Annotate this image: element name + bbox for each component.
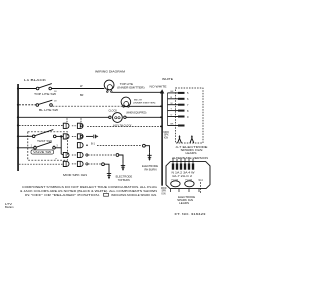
svg-text:BM LITE: BM LITE [134, 100, 143, 102]
svg-text:MOD: MOD [164, 132, 170, 134]
svg-text:(INNER EMITTER): (INNER EMITTER) [117, 85, 144, 89]
svg-text:ALTERNATE VERSION: ALTERNATE VERSION [172, 156, 208, 160]
junction dot row2 [17, 104, 19, 106]
wire dashed T1b feed drop [80, 118, 82, 123]
igniter T4b [77, 152, 88, 157]
svg-text:L1 BLACK: L1 BLACK [24, 78, 47, 82]
wire dashed T1a feed drop [66, 118, 68, 123]
svg-text:FO 7A: FO 7A [172, 178, 179, 181]
svg-text:MOD: MOD [161, 188, 167, 190]
pin row 5 [168, 116, 179, 118]
switch S1 TOP LITE SW [36, 87, 39, 90]
svg-text:(WHEN EQUIPPED): (WHEN EQUIPPED) [126, 112, 146, 115]
svg-text:SPK: SPK [164, 135, 169, 137]
wire clock row tail to N bus [126, 116, 161, 118]
svg-text:BL2am: BL2am [5, 207, 14, 209]
lamp DL1 TOP LITE [104, 80, 114, 90]
connector J1 (dashed box) [176, 88, 204, 143]
svg-text:1A-7 2A-C 2: 1A-7 2A-C 2 [172, 175, 193, 178]
igniter T4a [63, 152, 69, 157]
wire N bus (right vertical bus) [161, 91, 163, 186]
pin row 4 [168, 110, 179, 112]
module leads [173, 159, 193, 164]
connector wires vertical [167, 93, 169, 126]
wire row1 tail to N bus [112, 91, 161, 93]
svg-text:WHITE: WHITE [162, 77, 173, 81]
igniter T2b [77, 134, 83, 139]
igniter T3b [77, 143, 83, 148]
wire T5 to electrode LH [88, 163, 102, 165]
junction dots on N bus [160, 91, 162, 93]
svg-text:VALVE SW: VALVE SW [33, 151, 52, 154]
switch S3 THST SW [19, 135, 32, 137]
svg-text:BR: BR [80, 94, 84, 97]
wire dashed bus to T1a [19, 124, 63, 126]
svg-text:O: O [171, 115, 173, 117]
pin row 2 [168, 98, 179, 100]
pin row 6 [168, 125, 179, 127]
electrode RH BURN [147, 153, 151, 159]
svg-text:N 1A 2 3A 4 W: N 1A 2 3A 4 W [172, 171, 196, 174]
svg-text:NO WHITE: NO WHITE [150, 85, 167, 89]
wire dashed grid row pairs [72, 125, 78, 127]
electrode LH [107, 172, 111, 177]
svg-text:TOP BURN: TOP BURN [118, 178, 130, 182]
wire dashed T1b to N bus [87, 125, 161, 127]
svg-text:LEADS: LEADS [179, 201, 189, 205]
svg-text:RH BURN: RH BURN [145, 167, 157, 171]
svg-text:LTV: LTV [5, 204, 13, 206]
junction dot sw out [60, 135, 62, 137]
module ovals [171, 181, 180, 187]
igniter T2a [63, 134, 69, 139]
wire row2 tail to N bus [129, 105, 161, 107]
spark gap up B [190, 137, 194, 143]
module U2 alternate spark module [166, 162, 210, 189]
spark gap up A [178, 137, 182, 143]
junction dot switch B bus [17, 147, 19, 149]
igniter T5a [63, 161, 69, 166]
svg-text:ELECTRODE: ELECTRODE [142, 164, 158, 168]
node N bus top arrow [160, 89, 164, 93]
svg-text:INDICATES MODULE SPARK IGN.: INDICATES MODULE SPARK IGN. [111, 193, 157, 197]
box VALVE SW label [31, 150, 54, 154]
svg-text:IGN: IGN [164, 137, 168, 139]
igniter T1b [77, 123, 83, 128]
switch S4 VALVE SW [19, 147, 34, 149]
wire clock row from L1 bus [19, 116, 109, 118]
spark gap G1 [86, 135, 93, 137]
svg-text:FO 7A: FO 7A [186, 178, 193, 181]
svg-text:IN "OFF" OR "RELAXED" POSITION: IN "OFF" OR "RELAXED" POSITION. [25, 193, 100, 197]
svg-text:WIRING DIAGRAM: WIRING DIAGRAM [95, 70, 125, 74]
wire row2 left segment [19, 104, 36, 106]
junction dot T1a feed [17, 124, 19, 126]
wire T4 to electrode TOP [88, 154, 116, 156]
wire dashed bus to T5a [19, 163, 63, 165]
svg-text:IGN: IGN [162, 194, 166, 196]
svg-text:COMPONENT SYMBOLS DO NOT REFLE: COMPONENT SYMBOLS DO NOT REFLECT TRUE CO… [22, 185, 157, 189]
wire row1 left segment [19, 88, 36, 90]
svg-text:ELECTRODE: ELECTRODE [116, 174, 133, 178]
pin row 3 [168, 104, 179, 106]
svg-text:SPK: SPK [162, 191, 167, 193]
box burner switches (dashed) [28, 132, 68, 160]
junction dot switch A bus [17, 135, 19, 137]
svg-text:W-4: W-4 [199, 180, 204, 182]
switch S2 BL LITE SW [36, 104, 39, 107]
svg-text:(INNER EMITTER): (INNER EMITTER) [133, 102, 155, 104]
svg-text:ASSY TM CLOCK: ASSY TM CLOCK [113, 124, 132, 128]
junction dot row1 [17, 87, 19, 89]
junction dot row3 [17, 116, 19, 118]
wire row1 to lamp [52, 88, 105, 90]
svg-text:B-1: B-1 [91, 142, 96, 145]
svg-text:& JACK COLORS ARE AS NOTED (BL: & JACK COLORS ARE AS NOTED (BLACK & WHIT… [20, 189, 157, 193]
svg-text:FT. NO. 316423: FT. NO. 316423 [175, 212, 206, 216]
svg-text:LEADS: LEADS [186, 151, 197, 155]
electrode TOP BURN [121, 163, 125, 168]
svg-text:CLOCK: CLOCK [109, 109, 118, 113]
wire row2 dashed to lamp2 [53, 105, 123, 107]
svg-text:BL LITE SW: BL LITE SW [39, 108, 59, 112]
lamp DL2 BTM LITE [121, 97, 131, 107]
igniter T5b [77, 161, 88, 166]
wire L1 bus (left vertical bus) [17, 84, 19, 171]
module bottom leads [171, 189, 200, 192]
module terminals [172, 163, 174, 169]
svg-text:MOD SPK IGN: MOD SPK IGN [63, 174, 87, 177]
pin row 1 [168, 92, 179, 94]
igniter T1a [63, 123, 69, 128]
